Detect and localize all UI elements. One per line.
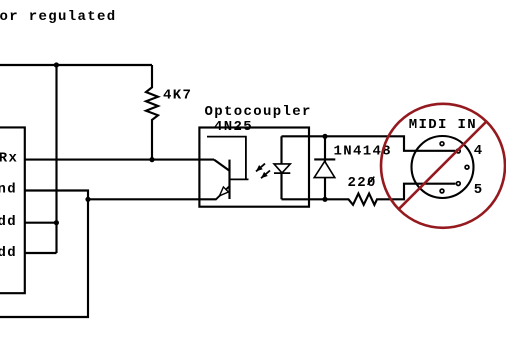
svg-text:5: 5 [474, 182, 484, 198]
svg-text:4: 4 [474, 143, 484, 159]
svg-text:4K7: 4K7 [163, 88, 192, 104]
svg-text:Rx: Rx [0, 150, 18, 166]
svg-text:4N25: 4N25 [214, 119, 253, 135]
svg-text:220: 220 [348, 175, 377, 191]
svg-text:MIDI IN: MIDI IN [409, 117, 477, 133]
svg-text:nd: nd [0, 182, 17, 198]
svg-text:or regulated: or regulated [0, 9, 117, 25]
svg-text:dd: dd [0, 245, 17, 261]
svg-text:Optocoupler: Optocoupler [205, 104, 312, 120]
svg-text:dd: dd [0, 214, 17, 230]
